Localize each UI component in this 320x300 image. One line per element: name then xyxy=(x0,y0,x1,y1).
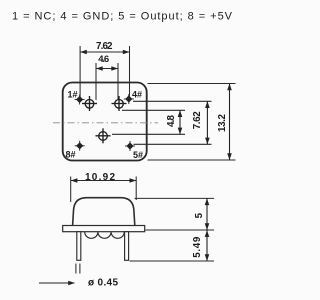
glass seal scallops xyxy=(85,232,125,238)
svg-text:1#: 1# xyxy=(68,90,78,100)
svg-text:ø 0.45: ø 0.45 xyxy=(88,278,118,289)
dimension 4.8 (vertical) xyxy=(179,110,181,134)
svg-text:7.62: 7.62 xyxy=(96,41,113,52)
dimension 7.62 (top, horizontal) xyxy=(80,46,129,99)
metal can body (side view) xyxy=(73,198,135,226)
svg-text:1 = NC; 4 = GND; 5 = Output; 8: 1 = NC; 4 = GND; 5 = Output; 8 = +5V xyxy=(12,11,233,23)
right pin (side view) xyxy=(125,232,129,261)
dimension 5.49 (vertical, pin length) xyxy=(206,230,208,261)
dimension 4.6 (top inner, horizontal) xyxy=(96,63,118,100)
mounting hole circle bottom (crosshair) xyxy=(96,128,111,143)
extension line pad row bottom (for 7.62 vertical) xyxy=(134,143,212,145)
svg-text:5.49: 5.49 xyxy=(192,236,203,258)
extension line body top (for 13.2) xyxy=(148,83,236,85)
svg-text:4.6: 4.6 xyxy=(98,54,109,65)
svg-text:10.92: 10.92 xyxy=(85,172,115,183)
extension line pad row top (for 7.62 vertical) xyxy=(133,100,212,102)
svg-text:4#: 4# xyxy=(132,90,142,100)
pin pad 5 (diamond, bottom-right) xyxy=(125,141,135,151)
pin diameter extension ticks xyxy=(75,264,77,274)
mounting hole circle right (crosshair) xyxy=(112,96,127,111)
extension line flange bottom (for dims 5 / 5.49) xyxy=(146,229,215,231)
horizontal centerline (dash-dot) xyxy=(53,122,158,124)
left pin (side view) xyxy=(77,232,81,261)
pin pad 8 (diamond, bottom-left) xyxy=(75,141,85,151)
pin pad 1 (diamond, top-left) xyxy=(75,95,85,105)
svg-text:13.2: 13.2 xyxy=(217,113,228,132)
extension line pin bottom (for dim 5.49) xyxy=(130,260,215,262)
pin pad 4 (diamond, top-right) xyxy=(124,94,134,104)
dimension 10.92 (horizontal, can diameter) xyxy=(71,177,137,203)
dimension 13.2 (vertical, overall body) xyxy=(229,84,231,161)
extension line body bottom (for 13.2) xyxy=(148,159,236,161)
extension line can top (for dim 5) xyxy=(135,197,215,199)
svg-text:5: 5 xyxy=(194,212,205,218)
svg-text:8#: 8# xyxy=(66,150,76,160)
svg-text:4.8: 4.8 xyxy=(166,114,177,127)
dimension 7.62 (vertical) xyxy=(206,101,208,144)
extension line hole row bottom (for 4.8) xyxy=(112,133,185,135)
base flange xyxy=(63,226,145,232)
dimension arrow pin diameter xyxy=(39,282,75,284)
dimension 5 (vertical, can height) xyxy=(206,198,208,230)
svg-text:7.62: 7.62 xyxy=(192,111,203,130)
extension line hole row top (for 4.8) xyxy=(122,109,185,111)
package outline (top view rounded square) xyxy=(63,83,147,161)
svg-text:5#: 5# xyxy=(133,150,143,160)
mounting hole circle left (crosshair) xyxy=(82,96,97,111)
